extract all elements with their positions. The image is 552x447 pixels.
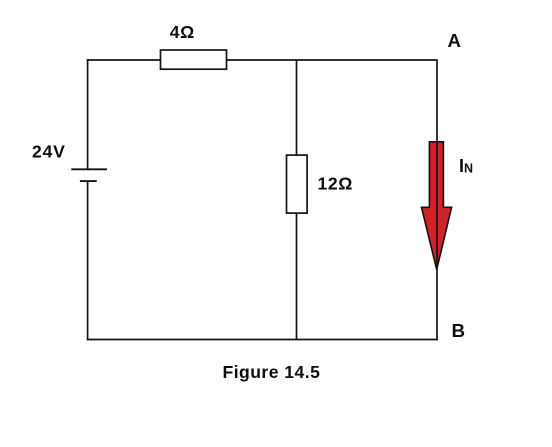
svg-text:IN: IN	[459, 156, 473, 176]
battery V1 positive plate (long)	[71, 168, 107, 170]
wire: middle branch upper (top rail down to R2)	[296, 60, 298, 156]
wire: top rail left (battery branch to R1)	[87, 59, 161, 61]
svg-text:4Ω: 4Ω	[170, 22, 195, 42]
wire: bottom rail (B to battery branch)	[87, 339, 438, 341]
wire: left branch lower (battery - plate down to bottom rail)	[87, 181, 89, 340]
resistor R1 4Ω (horizontal box)	[161, 50, 227, 69]
wire: middle branch lower (R2 down to bottom rail)	[296, 212, 298, 340]
svg-text:24V: 24V	[32, 141, 66, 161]
current arrow IN (red, pointing down from A to B)	[422, 142, 452, 270]
wire: right branch (node A down through arrow to node B)	[436, 60, 438, 340]
wire: left branch upper (top rail down to battery + plate)	[87, 59, 89, 169]
svg-text:12Ω: 12Ω	[318, 174, 353, 194]
svg-text:Figure 14.5: Figure 14.5	[223, 362, 321, 382]
svg-text:B: B	[452, 320, 466, 341]
battery V1 negative plate (short)	[80, 180, 97, 182]
svg-text:A: A	[448, 30, 461, 51]
wire: top rail right (R1 to node A corner)	[226, 59, 438, 61]
resistor R2 12Ω (vertical box)	[287, 155, 308, 213]
